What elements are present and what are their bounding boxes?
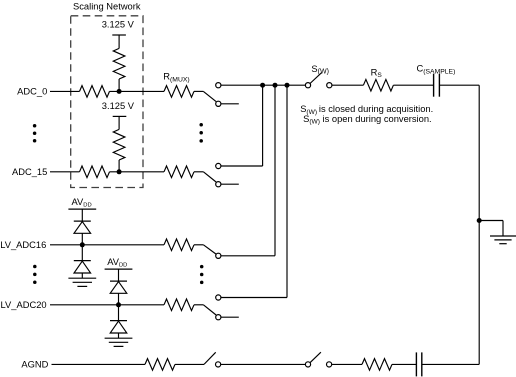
wire bus 2 vertical bbox=[274, 85, 276, 256]
diode D1 clamp to AVDD bbox=[74, 220, 91, 222]
wire ADC_0 input bbox=[50, 90, 80, 92]
svg-text:LV_ADC16: LV_ADC16 bbox=[0, 240, 46, 250]
svg-text:3.125 V: 3.125 V bbox=[102, 20, 135, 30]
switch contact ADC_0 lower bbox=[216, 101, 221, 106]
switch contact ADC_15 upper bbox=[216, 163, 221, 168]
wire mux output bus bbox=[221, 84, 306, 86]
wire LV_ADC16 contact to bus bbox=[221, 255, 275, 257]
switch contact AGND mux bbox=[216, 362, 221, 367]
resistor Rs bbox=[363, 79, 393, 91]
wire AGND mux to sampling switch bbox=[221, 363, 306, 365]
wire LV_ADC16 input bbox=[50, 244, 164, 246]
wire LV_ADC20 node to diode D4 bbox=[118, 305, 120, 321]
switch AGND sampling left contact bbox=[305, 362, 310, 367]
wire stub LV_ADC20 lower contact bbox=[221, 316, 239, 318]
resistor R(MUX) LV_ADC16 bbox=[164, 239, 194, 251]
diode D2 clamp to ground bbox=[74, 260, 91, 262]
node junction bus 2 bbox=[273, 83, 278, 88]
wire AVDD to diode D3 bbox=[118, 269, 120, 281]
resistor divider R (ADC_15 pull-up) bbox=[113, 129, 125, 160]
node junction LV_ADC16 clamp bbox=[80, 242, 85, 247]
wire AVDD to diode D1 bbox=[81, 209, 83, 221]
wire AGND resistor to switch bbox=[175, 363, 204, 365]
switch blade ADC_0 bbox=[203, 91, 216, 101]
switch contact ADC_0 upper bbox=[216, 83, 221, 88]
power rail AVDD bar 2 bbox=[105, 268, 133, 270]
ground (LV_ADC16 clamp) bbox=[68, 277, 96, 279]
wire V1 to R divider bbox=[118, 35, 120, 48]
svg-text:3.125 V: 3.125 V bbox=[102, 101, 135, 111]
node junction right rail bbox=[477, 218, 482, 223]
scaling network dashed box bbox=[71, 16, 143, 188]
node junction ADC_0 divider bbox=[117, 89, 122, 94]
wire diode D1 to LV_ADC16 node bbox=[81, 233, 83, 245]
wire bus 1 vertical bbox=[262, 85, 264, 166]
wire C(SAMPLE) to right rail bbox=[439, 84, 479, 86]
node junction bus 1 bbox=[260, 83, 265, 88]
switch contact ADC_15 lower bbox=[216, 182, 221, 187]
ground (right rail) bbox=[490, 235, 516, 237]
wire divider to ADC_15 node bbox=[118, 160, 120, 172]
wire R(MUX) to switch LV_ADC20 bbox=[194, 304, 203, 306]
switch blade LV_ADC20 bbox=[203, 305, 216, 315]
switch blade AGND mux bbox=[204, 352, 216, 364]
ellipsis dots mid (LV_ADC16..LV_ADC20) bbox=[200, 265, 204, 269]
switch S(W) right contact bbox=[327, 83, 332, 88]
switch contact LV_ADC16 bbox=[216, 253, 221, 258]
wire stub ADC_0 lower contact bbox=[221, 103, 239, 105]
switch AGND sampling blade bbox=[310, 352, 321, 363]
wire Rs to C(SAMPLE) bbox=[393, 84, 433, 86]
svg-text:ADC_15: ADC_15 bbox=[12, 167, 47, 177]
resistor R(MUX) ADC_0 bbox=[164, 86, 194, 98]
resistor AGND series bbox=[145, 359, 175, 371]
resistor scaling (ADC_0 series) bbox=[80, 86, 110, 98]
wire diode D3 to LV_ADC20 node bbox=[118, 293, 120, 305]
resistor R(MUX) ADC_15 bbox=[164, 166, 194, 178]
capacitor C(SAMPLE) bbox=[433, 74, 435, 97]
voltage source V2 terminal bar bbox=[113, 115, 127, 117]
power rail AVDD bar 1 bbox=[68, 208, 96, 210]
wire V2 to R divider bbox=[118, 116, 120, 129]
svg-text:AGND: AGND bbox=[21, 359, 48, 369]
resistor R(MUX) LV_ADC20 bbox=[164, 299, 194, 311]
switch blade ADC_15 bbox=[203, 172, 216, 182]
wire AGND input bbox=[52, 363, 146, 365]
wire LV_ADC20 contact to bus bbox=[221, 297, 287, 299]
wire ADC_0 to mux resistor bbox=[110, 90, 165, 92]
switch AGND sampling right contact bbox=[327, 362, 332, 367]
node junction ADC_15 divider bbox=[117, 169, 122, 174]
wire AGND capacitor to right rail bbox=[422, 363, 479, 365]
wire stub ADC_15 lower contact bbox=[221, 183, 239, 185]
svg-text:Scaling Network: Scaling Network bbox=[73, 1, 141, 11]
wire bus 3 vertical bbox=[286, 85, 288, 297]
wire diode D4 to ground bbox=[118, 333, 120, 338]
ground (LV_ADC20 clamp) bbox=[105, 337, 133, 339]
resistor AGND sampling bbox=[362, 359, 392, 371]
switch contact LV_ADC20 lower bbox=[216, 315, 221, 320]
wire LV_ADC20 input bbox=[50, 304, 164, 306]
wire AGND switch to resistor bbox=[332, 363, 362, 365]
ellipsis dots left (LV_ADC16..LV_ADC20) bbox=[33, 265, 37, 269]
node junction LV_ADC20 clamp bbox=[116, 302, 121, 307]
wire right rail to ground bbox=[479, 220, 503, 222]
switch contact LV_ADC20 upper bbox=[216, 295, 221, 300]
diode D4 clamp to ground bbox=[110, 320, 127, 322]
capacitor AGND sampling bbox=[415, 352, 417, 376]
wire ADC_15 contact to bus bbox=[221, 165, 263, 167]
svg-text:LV_ADC20: LV_ADC20 bbox=[1, 300, 47, 310]
svg-text:ADC_0: ADC_0 bbox=[17, 86, 47, 96]
wire ADC_15 input bbox=[50, 171, 80, 173]
wire LV_ADC16 node to diode D2 bbox=[81, 245, 83, 261]
ellipsis dots left (ADC_0..ADC_15) bbox=[33, 124, 37, 128]
voltage source V1 terminal bar bbox=[112, 34, 126, 36]
resistor divider R (ADC_0 pull-up) bbox=[113, 48, 125, 79]
resistor scaling (ADC_15 series) bbox=[80, 166, 110, 178]
node junction bus 3 bbox=[285, 83, 290, 88]
wire divider to ADC_0 node bbox=[118, 79, 120, 91]
wire AGND resistor to capacitor bbox=[392, 363, 416, 365]
switch S(W) blade bbox=[310, 73, 322, 84]
wire diode D2 to ground bbox=[81, 273, 83, 278]
wire S(W) to Rs bbox=[332, 84, 364, 86]
diode D3 clamp to AVDD bbox=[110, 280, 127, 282]
ellipsis dots mid (ADC_0..ADC_15) bbox=[199, 123, 203, 127]
switch S(W) left contact bbox=[305, 83, 310, 88]
wire right rail vertical bbox=[478, 85, 480, 364]
wire R(MUX) to switch LV_ADC16 bbox=[194, 244, 203, 246]
wire ADC_15 to mux resistor bbox=[110, 171, 165, 173]
wire R(MUX) to switch ADC_15 bbox=[194, 171, 203, 173]
switch blade LV_ADC16 bbox=[203, 245, 216, 254]
wire R(MUX) to switch bbox=[194, 90, 203, 92]
